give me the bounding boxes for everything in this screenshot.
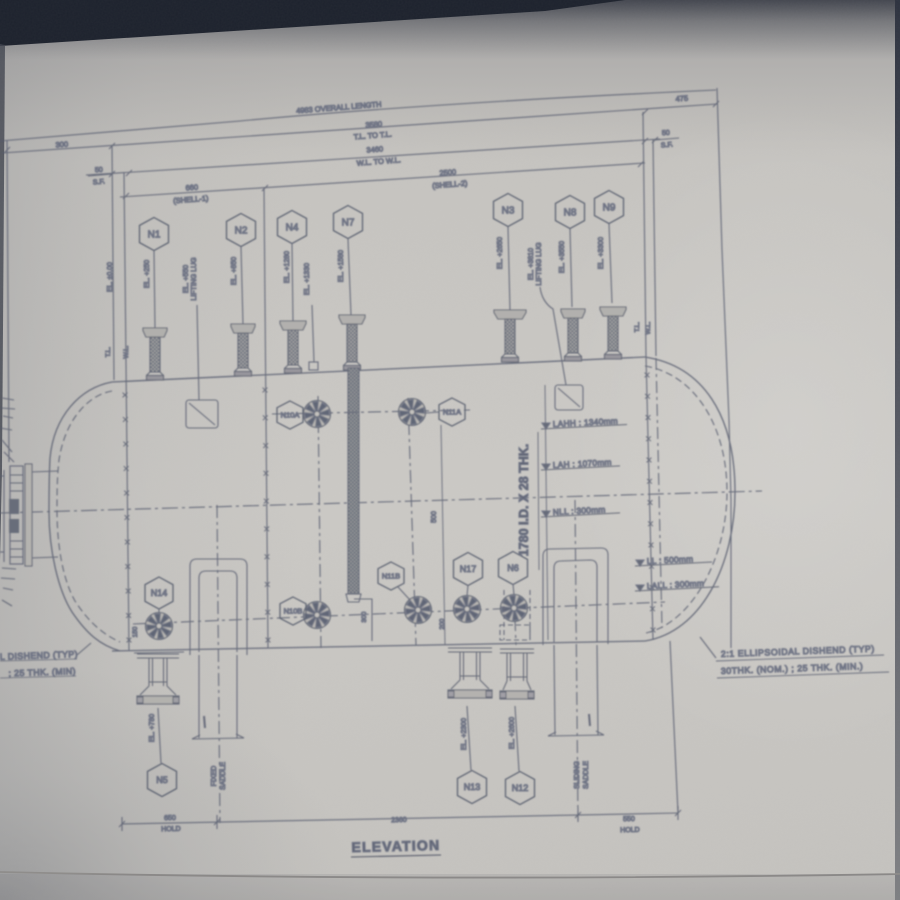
svg-text:EL. ±0.00: EL. ±0.00 xyxy=(107,262,114,292)
bottom dim line xyxy=(122,813,678,824)
svg-text:N9: N9 xyxy=(603,203,616,214)
svg-text:EL. +3550: EL. +3550 xyxy=(559,241,566,273)
nozzle tag hexagon N4 xyxy=(278,211,307,244)
left manway bolts dark xyxy=(9,499,19,514)
nozzle symbol circle N11A xyxy=(399,399,426,426)
vertical dash-dot through N11A/N11B xyxy=(408,398,416,645)
top flanged nozzle N1 xyxy=(143,328,167,380)
nozzle tag hexagon N5 xyxy=(148,764,177,797)
svg-text:550: 550 xyxy=(623,816,635,823)
WL right vertical, dash-dot below tangent xyxy=(653,139,656,356)
right head note leader xyxy=(700,637,716,658)
nozzle symbol circle N11B xyxy=(405,597,432,624)
svg-text:N7: N7 xyxy=(342,218,355,229)
leader N7 xyxy=(348,239,351,315)
top flanged nozzle N8 xyxy=(561,309,585,361)
leader N2 xyxy=(241,247,243,324)
svg-text:T.L.: T.L. xyxy=(105,347,112,358)
svg-text:N11B: N11B xyxy=(382,572,400,581)
svg-text:650: 650 xyxy=(164,815,176,822)
left head inner dashed line xyxy=(57,391,120,642)
dashed hidden lines N12 xyxy=(503,590,505,640)
leader N13 xyxy=(467,706,471,770)
leader N5 xyxy=(158,708,161,763)
shell top line xyxy=(112,357,645,382)
svg-text:EL. +850: EL. +850 xyxy=(231,257,238,285)
nozzle symbol circle N6 xyxy=(501,595,528,622)
svg-text:S.F.: S.F. xyxy=(661,142,674,150)
svg-text:660: 660 xyxy=(185,183,198,193)
svg-text:EL. +250: EL. +250 xyxy=(144,260,151,288)
level mark LL xyxy=(635,554,712,566)
vertical dash-dot through N10A/N10B xyxy=(318,396,321,648)
top flanged nozzle N7 xyxy=(339,315,365,370)
nozzle tag hexagon N17 xyxy=(454,553,483,586)
level mark LALL xyxy=(635,578,719,591)
svg-text:EL. +3300: EL. +3300 xyxy=(598,237,605,269)
left manway flange plate xyxy=(25,464,32,566)
svg-text:EL. +2650: EL. +2650 xyxy=(497,237,504,269)
leader N10B xyxy=(303,613,304,614)
svg-text:EL. +780: EL. +780 xyxy=(149,714,156,742)
svg-text:EL. +3810: EL. +3810 xyxy=(528,248,535,280)
svg-text:200: 200 xyxy=(439,618,446,629)
top flanged nozzle N3 xyxy=(494,310,526,362)
nozzle tag hexagon N14 xyxy=(145,577,173,609)
svg-text:N4: N4 xyxy=(286,223,299,234)
svg-text:ELEVATION: ELEVATION xyxy=(351,837,440,855)
svg-text:SADDLE: SADDLE xyxy=(220,762,227,790)
paper fold line near bottom xyxy=(0,872,900,878)
svg-text:W.L.: W.L. xyxy=(645,321,652,334)
svg-text:2500: 2500 xyxy=(439,167,456,177)
left ellipsoidal head outline xyxy=(49,382,120,651)
right head inner dashed line xyxy=(645,366,727,633)
sliding saddle centerline dash-dot xyxy=(575,500,578,820)
bottom dim ticks xyxy=(121,817,123,831)
nozzle symbol circle N17 xyxy=(454,596,481,623)
svg-text:150: 150 xyxy=(132,626,139,637)
bottom-left corner shading xyxy=(0,620,420,900)
svg-text:EL. +1580: EL. +1580 xyxy=(338,250,345,282)
right ellipsoidal head outline xyxy=(645,357,735,641)
svg-text:N14: N14 xyxy=(151,588,168,598)
left head note leader xyxy=(77,643,91,655)
svg-text:N2: N2 xyxy=(235,226,248,237)
dip pipe end cap xyxy=(346,594,361,602)
left edge dark strip xyxy=(0,44,5,560)
nozzle tag hexagon N9 xyxy=(595,191,624,224)
plain nozzle line EL+1330 xyxy=(312,305,314,362)
reinforcement pad line left xyxy=(134,652,184,653)
lower nozzle row dash-dot xyxy=(133,602,665,624)
dashed hidden box near N6 xyxy=(500,625,530,640)
nozzle tag hexagon N7 xyxy=(334,206,363,239)
svg-text:EL. +1330: EL. +1330 xyxy=(304,263,311,295)
svg-text:N10A: N10A xyxy=(281,411,300,420)
level mark LAHH xyxy=(541,416,627,429)
svg-text:N3: N3 xyxy=(502,206,515,217)
dimension tick slashes xyxy=(4,147,10,153)
top flanged nozzle N2 xyxy=(231,324,255,376)
top flanged nozzle N9 xyxy=(600,307,626,359)
right end vertical (475 tick continuing to head apex) xyxy=(717,88,731,648)
svg-text:3460: 3460 xyxy=(366,144,383,154)
dark navy wedge top-left (table behind paper) xyxy=(0,0,625,46)
leader N10A xyxy=(303,413,305,415)
leader N8 xyxy=(570,229,572,307)
svg-text:N5: N5 xyxy=(156,775,168,785)
WL left vertical (weld, with x marks) xyxy=(124,172,129,650)
fixed saddle anchor slot xyxy=(204,716,205,728)
svg-text:300: 300 xyxy=(361,611,368,622)
svg-text:N11A: N11A xyxy=(443,408,461,417)
upper nozzle row dash-dot xyxy=(272,410,470,414)
leader N3 xyxy=(508,227,510,310)
leader N17 xyxy=(467,585,468,596)
sliding saddle anchor slot xyxy=(589,714,590,726)
nozzle symbol circle N10A xyxy=(304,401,331,428)
leader N4 xyxy=(292,244,293,321)
svg-text:FIXED: FIXED xyxy=(211,766,218,787)
dark table background top band xyxy=(0,0,900,60)
nozzle tag hexagon N1 xyxy=(140,218,169,251)
sliding saddle inner web xyxy=(554,560,597,642)
shell bottom line xyxy=(112,641,645,651)
lifting lug 2 xyxy=(555,385,583,410)
dim line 3460 WL to WL xyxy=(86,139,660,175)
left manway extra lines xyxy=(3,470,5,562)
level mark NLL xyxy=(541,504,620,517)
fixed saddle base line with arrows xyxy=(192,738,244,739)
svg-text:N12: N12 xyxy=(512,783,529,793)
N7 internal dip pipe xyxy=(348,368,359,594)
svg-text:50: 50 xyxy=(662,130,670,138)
TL right vertical continuing as weld with x marks xyxy=(643,112,646,356)
leader N12 xyxy=(515,706,519,771)
svg-text:LIFTING LUG: LIFTING LUG xyxy=(191,257,198,300)
nozzle tag hexagon N6 xyxy=(499,552,528,585)
left manway bolt lines xyxy=(10,475,23,557)
svg-text:475: 475 xyxy=(675,94,688,104)
svg-text:EL. +550: EL. +550 xyxy=(183,265,190,293)
svg-text:EL. +2300: EL. +2300 xyxy=(461,718,468,750)
svg-text:3580: 3580 xyxy=(365,119,382,129)
nozzle tag hexagon N8 xyxy=(556,196,585,229)
vessel centerline axis dash-dot xyxy=(0,491,762,513)
nozzle tag hexagon N10A xyxy=(277,401,303,429)
lifting lug 1 xyxy=(186,400,218,428)
nozzle tag hexagon N11A xyxy=(439,398,465,426)
right edge dark strip xyxy=(895,0,900,900)
svg-text:EL. +1280: EL. +1280 xyxy=(284,251,291,283)
dim line 4983 overall length xyxy=(0,90,716,141)
vortex breaker lines below dip pipe xyxy=(354,599,372,641)
svg-text:N6: N6 xyxy=(507,563,519,573)
left overall tick vertical xyxy=(7,140,9,462)
dim line 660 / 2500 shells xyxy=(120,163,645,197)
nozzle tag hexagon N3 xyxy=(494,194,523,227)
leader N9 xyxy=(609,224,612,303)
nozzle tag hexagon N10B xyxy=(280,597,306,625)
nozzle tag hexagon N13 xyxy=(458,771,487,804)
svg-text:LIFTING LUG: LIFTING LUG xyxy=(536,242,543,285)
left manway blind cover xyxy=(10,466,23,564)
dim line 3580 TL to TL xyxy=(2,104,717,153)
top flanged nozzle N4 xyxy=(280,321,306,373)
fixed saddle centerline dash-dot xyxy=(217,505,220,823)
svg-text:500: 500 xyxy=(431,511,438,523)
TL left vertical xyxy=(112,146,114,380)
nozzle symbol circle N10B xyxy=(304,602,331,629)
leader N11A xyxy=(426,412,439,413)
svg-text:T.L.: T.L. xyxy=(634,322,641,333)
svg-text:300: 300 xyxy=(55,140,68,150)
small upper-left nozzle xyxy=(0,398,15,462)
svg-text:EL. +2600: EL. +2600 xyxy=(509,717,516,749)
sliding saddle outer xyxy=(543,548,608,645)
svg-text:SADDLE: SADDLE xyxy=(583,761,590,789)
svg-text:SLIDING: SLIDING xyxy=(574,761,581,789)
leader N1 xyxy=(154,251,155,328)
left end manway barrel xyxy=(30,471,58,558)
level mark LAH xyxy=(541,457,620,470)
svg-text:1780 I.D. X 28 THK.: 1780 I.D. X 28 THK. xyxy=(517,444,531,557)
nozzle tag hexagon N11B xyxy=(378,562,404,590)
leader N6 xyxy=(513,584,514,595)
top shadow gradient on paper xyxy=(0,0,900,150)
svg-text:HOLD: HOLD xyxy=(620,827,640,835)
leader N11B xyxy=(398,587,410,600)
svg-text:N1: N1 xyxy=(148,230,161,241)
small lower-left flange lines xyxy=(1,568,16,606)
svg-text:S.F.: S.F. xyxy=(93,179,106,187)
nozzle symbol circle N14 xyxy=(146,613,173,640)
bright patch right side xyxy=(530,100,900,760)
sliding saddle base line with arrows xyxy=(548,735,604,736)
svg-text:2360: 2360 xyxy=(391,817,407,824)
circumferential seam shell1/shell2 with x marks xyxy=(264,188,268,648)
left side shading xyxy=(0,40,300,900)
svg-text:N10B: N10B xyxy=(284,607,303,616)
svg-text:N17: N17 xyxy=(460,564,477,574)
fixed saddle inner web xyxy=(199,571,237,652)
svg-text:N13: N13 xyxy=(464,782,481,792)
bottom flanged nozzle N12 xyxy=(500,649,534,699)
svg-text:N8: N8 xyxy=(564,208,577,219)
leader lifting lug 1 xyxy=(197,305,199,400)
svg-text:50: 50 xyxy=(95,167,103,175)
bottom flanged nozzle N5 xyxy=(137,654,179,704)
nozzle tag hexagon N2 xyxy=(227,214,256,247)
nozzle tag hexagon N12 xyxy=(506,772,535,805)
leader lifting lug 2 xyxy=(540,287,566,385)
bottom flanged nozzle N13 xyxy=(448,648,492,698)
fixed saddle outer xyxy=(190,559,247,655)
svg-text:HOLD: HOLD xyxy=(161,826,181,834)
leader N14 xyxy=(158,609,160,613)
bottom right tick vertical xyxy=(670,641,678,813)
vertical dash-dot below N6 xyxy=(514,594,516,645)
vertical line for level flags xyxy=(545,385,548,640)
svg-text:W.L.: W.L. xyxy=(123,345,130,358)
